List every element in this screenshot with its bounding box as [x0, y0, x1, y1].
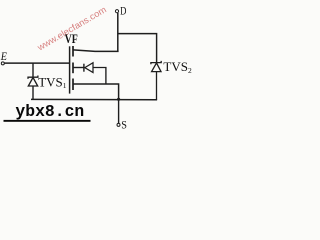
underline [4, 120, 91, 122]
wire branch to TVS2 [118, 34, 157, 62]
svg-text:VF: VF [65, 31, 78, 46]
wire drain vertical [117, 13, 119, 51]
body diode bar [83, 64, 85, 72]
watermark www.elecfans.com [35, 4, 108, 53]
svg-text:S: S [121, 120, 127, 132]
svg-text:D: D [120, 6, 126, 18]
svg-text:E: E [0, 49, 7, 63]
svg-text:TVS1: TVS1 [38, 75, 67, 91]
body diode wire to source [93, 68, 106, 84]
body diode triangle [85, 63, 93, 73]
wire drain horizontal [73, 50, 119, 52]
wire gate horizontal [4, 62, 69, 64]
gate bar [69, 46, 71, 93]
TVS diode TVS2 [151, 61, 161, 100]
channel segment middle [72, 63, 74, 74]
source wire [73, 84, 119, 99]
terminal E [1, 62, 4, 65]
terminal S [117, 123, 120, 126]
terminal D [115, 10, 118, 13]
transistor VF mosfet [70, 46, 119, 99]
channel segment top [72, 46, 74, 57]
svg-text:TVS2: TVS2 [163, 59, 192, 75]
TVS diode TVS1 [28, 63, 38, 99]
wire bottom [31, 98, 157, 100]
body stub [73, 67, 84, 69]
wire to S [118, 99, 120, 123]
channel segment bottom [72, 79, 74, 91]
junction dot [117, 98, 120, 101]
svg-text:ybx8.cn: ybx8.cn [15, 102, 84, 121]
